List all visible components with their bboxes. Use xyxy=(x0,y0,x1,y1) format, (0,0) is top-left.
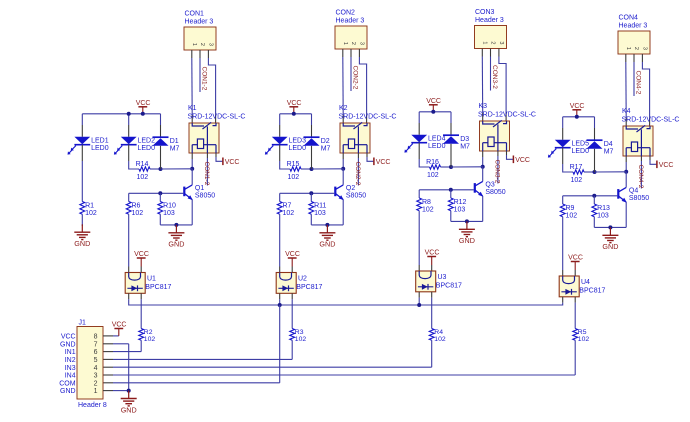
wire rail to diode D3 xyxy=(450,112,452,135)
svg-text:R7: R7 xyxy=(283,202,292,209)
wire LED LED4 to resistor R16 xyxy=(419,143,429,167)
svg-text:R11: R11 xyxy=(314,202,326,209)
svg-text:CON1: CON1 xyxy=(185,11,205,18)
svg-text:CON2: CON2 xyxy=(336,10,356,17)
wire CON3 pin1 to relay NC contact xyxy=(481,49,483,122)
svg-text:VCC: VCC xyxy=(112,322,127,329)
wire relay K1 coil- to collector node xyxy=(191,153,193,169)
svg-text:IN1: IN1 xyxy=(65,349,76,356)
svg-text:GND: GND xyxy=(319,240,335,249)
resistor R13 103 xyxy=(592,196,610,220)
svg-text:K1: K1 xyxy=(188,105,197,112)
svg-text:3: 3 xyxy=(358,42,364,45)
svg-text:COM: COM xyxy=(59,380,76,387)
connector J1 (Header 8) xyxy=(77,320,107,409)
svg-text:R1: R1 xyxy=(85,202,94,209)
svg-text:LED2: LED2 xyxy=(138,138,156,145)
svg-text:Header 3: Header 3 xyxy=(336,18,365,25)
resistor R5 102 xyxy=(573,329,590,344)
transistor Q3 S8050 xyxy=(475,181,506,196)
wire LED LED3 to resistor R15 xyxy=(280,145,290,169)
node VCC stem junction xyxy=(141,112,145,116)
svg-text:VCC: VCC xyxy=(225,159,240,166)
wire coil node to Q3 collector xyxy=(482,167,484,182)
LED LED2 xyxy=(114,137,155,155)
svg-text:102: 102 xyxy=(566,212,578,219)
svg-text:GND: GND xyxy=(459,236,475,245)
svg-text:R2: R2 xyxy=(144,329,153,336)
wire R4 to J1 row xyxy=(103,340,432,367)
svg-text:LED3: LED3 xyxy=(289,138,307,145)
svg-text:R3: R3 xyxy=(295,329,304,336)
relay K1 SRD-12VDC-SL-C xyxy=(188,105,246,153)
wire U3 cathode pin to bus xyxy=(418,292,420,305)
wire relay K2 coil+ to VCC xyxy=(367,153,373,161)
node VCC stem junction xyxy=(431,110,435,114)
resistor R9 102 xyxy=(560,196,577,220)
LED LED3 xyxy=(265,137,306,155)
node base junction xyxy=(158,191,162,195)
power VCC at relay K4 coil xyxy=(657,161,674,169)
wire diode node to coil node xyxy=(161,168,193,170)
resistor R4 102 xyxy=(429,329,446,344)
wire rail to diode D1 xyxy=(160,114,162,137)
wire Q4 base xyxy=(563,195,618,197)
wire VCC rail of channel 1 xyxy=(129,113,161,115)
diode D2 M7 xyxy=(304,137,331,152)
svg-text:IN3: IN3 xyxy=(65,365,76,372)
svg-text:CON4-2: CON4-2 xyxy=(635,71,642,95)
svg-text:GND: GND xyxy=(168,240,184,249)
wire R3 to J1 row xyxy=(103,340,292,359)
svg-text:VCC: VCC xyxy=(426,98,441,105)
wire Q1 base xyxy=(129,192,184,194)
svg-text:1: 1 xyxy=(191,43,197,46)
node emitter/ground junction xyxy=(465,219,469,223)
svg-text:M7: M7 xyxy=(460,144,470,151)
svg-text:102: 102 xyxy=(288,174,300,181)
svg-text:CON2-2: CON2-2 xyxy=(354,162,361,186)
svg-text:1: 1 xyxy=(342,42,348,45)
wire relay K4 coil- to collector node xyxy=(625,156,627,172)
wire J1 pin8 to VCC xyxy=(103,335,119,337)
wire CON3 pin3 to relay NO contact xyxy=(499,49,506,122)
svg-text:103: 103 xyxy=(163,210,175,217)
wire LED LED5 to resistor R17 xyxy=(563,148,573,172)
svg-text:U1: U1 xyxy=(147,275,156,282)
svg-text:BPC817: BPC817 xyxy=(296,284,322,291)
resistor R17 102 xyxy=(570,164,584,184)
svg-text:103: 103 xyxy=(597,212,609,219)
svg-text:LED0: LED0 xyxy=(91,145,109,152)
node emitter/ground junction xyxy=(608,225,612,229)
LED LED4 xyxy=(404,135,445,153)
wire rail to LED LED2 xyxy=(128,114,130,137)
svg-text:LED5: LED5 xyxy=(572,141,590,148)
transistor Q1 S8050 xyxy=(184,185,215,200)
svg-text:IN2: IN2 xyxy=(65,357,76,364)
node U2 cathode junction xyxy=(278,303,282,307)
svg-text:2: 2 xyxy=(633,47,639,50)
wire R6 to optocoupler U1 emitter pin xyxy=(128,214,130,272)
svg-text:M7: M7 xyxy=(170,146,180,153)
connector CON1 (Header 3) xyxy=(184,11,216,51)
svg-text:GND: GND xyxy=(602,242,618,251)
node coil-/collector junction xyxy=(190,167,194,171)
svg-text:K2: K2 xyxy=(339,105,348,112)
svg-text:LED0: LED0 xyxy=(428,143,446,150)
svg-text:S8050: S8050 xyxy=(346,193,366,200)
wire CON1 pin3 to relay NO contact xyxy=(208,50,215,123)
wire Q2 base xyxy=(280,192,335,194)
svg-text:K4: K4 xyxy=(622,108,631,115)
resistor R3 102 xyxy=(290,329,307,344)
svg-text:SRD-12VDC-SL-C: SRD-12VDC-SL-C xyxy=(478,112,536,119)
node emitter/ground junction xyxy=(325,223,329,227)
svg-text:3: 3 xyxy=(498,41,504,44)
wire Q2 emitter down xyxy=(342,200,344,225)
diode D1 M7 xyxy=(153,137,180,152)
resistor R7 102 xyxy=(277,193,294,217)
svg-text:R4: R4 xyxy=(434,329,443,336)
wire relay K4 coil+ to VCC xyxy=(650,156,656,164)
svg-text:8: 8 xyxy=(94,334,98,341)
wire R13 bottom to emitter xyxy=(594,217,626,228)
resistor R8 102 xyxy=(417,190,434,214)
wire LED1 to R1 xyxy=(81,145,83,202)
svg-text:D4: D4 xyxy=(604,141,613,148)
ground at Q2 emitter xyxy=(319,225,335,249)
svg-text:2: 2 xyxy=(490,41,496,44)
wire R16 to diode node xyxy=(441,166,452,168)
svg-text:5: 5 xyxy=(94,357,98,364)
optocoupler U2 BPC817 xyxy=(276,273,322,294)
svg-text:J1: J1 xyxy=(79,320,87,327)
wire relay K3 COM pin (net CON3-2) xyxy=(497,151,499,184)
power VCC at relay K3 coil xyxy=(513,156,530,164)
svg-text:Header 3: Header 3 xyxy=(619,23,648,30)
svg-text:D1: D1 xyxy=(170,138,179,145)
wire relay K4 COM pin (net CON4-2) xyxy=(640,156,642,189)
svg-text:SRD-12VDC-SL-C: SRD-12VDC-SL-C xyxy=(339,114,397,121)
wire diode node to coil node xyxy=(451,166,483,168)
resistor R16 102 xyxy=(426,159,440,179)
node J1 ground junction xyxy=(127,389,131,393)
svg-text:GND: GND xyxy=(60,388,76,395)
wire CON1 pin1 to relay NC contact xyxy=(191,50,193,123)
svg-text:102: 102 xyxy=(137,174,149,181)
node coil-/collector junction xyxy=(481,165,485,169)
diode D4 M7 xyxy=(587,140,614,155)
power VCC on rail 3 xyxy=(426,98,441,112)
power VCC at optocoupler U1 xyxy=(134,251,149,272)
svg-text:U2: U2 xyxy=(298,275,307,282)
node LED2 rail junction xyxy=(127,112,131,116)
svg-text:IN4: IN4 xyxy=(65,373,76,380)
transistor Q2 S8050 xyxy=(335,185,366,200)
svg-text:SRD-12VDC-SL-C: SRD-12VDC-SL-C xyxy=(622,117,680,124)
node VCC stem junction xyxy=(575,115,579,119)
svg-text:R5: R5 xyxy=(578,329,587,336)
wire J1 pin7 GND riser xyxy=(103,344,129,391)
wire diode node to coil node xyxy=(595,171,627,173)
node coil-/collector junction xyxy=(624,170,628,174)
wire relay K3 coil+ to VCC xyxy=(507,151,513,159)
svg-text:R15: R15 xyxy=(287,161,300,168)
resistor R1 102 xyxy=(80,202,97,217)
wire rail left end to LED1 xyxy=(82,114,128,137)
svg-text:102: 102 xyxy=(427,172,439,179)
wire R15 to diode node xyxy=(301,168,312,170)
svg-text:2: 2 xyxy=(94,380,98,387)
svg-text:LED0: LED0 xyxy=(289,145,307,152)
wire CON4 pin2 stub (net CON4-2) xyxy=(633,54,635,96)
svg-text:CON4: CON4 xyxy=(619,15,639,22)
power VCC at optocoupler U2 xyxy=(285,251,300,272)
wire VCC rail of channel 4 xyxy=(563,116,595,118)
svg-text:M7: M7 xyxy=(321,146,331,153)
svg-text:VCC: VCC xyxy=(61,334,76,341)
wire diode D4 anode to node xyxy=(594,149,596,172)
resistor R2 102 xyxy=(139,329,156,344)
wire relay K1 coil+ to VCC xyxy=(216,153,222,161)
svg-text:D2: D2 xyxy=(321,138,330,145)
svg-text:VCC: VCC xyxy=(287,100,302,107)
transistor Q4 S8050 xyxy=(618,187,649,202)
power VCC at optocoupler U4 xyxy=(568,255,583,276)
svg-text:7: 7 xyxy=(94,341,98,348)
relay K4 SRD-12VDC-SL-C xyxy=(622,108,680,156)
svg-text:1: 1 xyxy=(94,388,98,395)
ground at J1 xyxy=(121,391,137,415)
wire relay K2 coil- to collector node xyxy=(342,153,344,169)
svg-text:M7: M7 xyxy=(604,149,614,156)
svg-text:1: 1 xyxy=(481,41,487,44)
ground at Q3 emitter xyxy=(459,221,475,245)
wire Q3 base xyxy=(419,189,474,191)
svg-text:CON1-2: CON1-2 xyxy=(203,162,210,186)
svg-text:102: 102 xyxy=(434,336,446,343)
node diode anode junction xyxy=(159,167,163,171)
wire CON2 pin2 stub (net CON2-2) xyxy=(350,49,352,91)
svg-text:102: 102 xyxy=(578,336,590,343)
svg-text:S8050: S8050 xyxy=(195,193,215,200)
svg-text:VCC: VCC xyxy=(568,255,583,262)
svg-text:6: 6 xyxy=(94,349,98,356)
svg-text:CON1-2: CON1-2 xyxy=(201,67,208,91)
wire R1 to ground xyxy=(81,214,83,226)
node emitter/ground junction xyxy=(174,223,178,227)
svg-text:S8050: S8050 xyxy=(485,189,505,196)
svg-text:U3: U3 xyxy=(438,274,447,281)
svg-text:2: 2 xyxy=(350,42,356,45)
resistor R14 102 xyxy=(136,161,150,181)
svg-text:Q1: Q1 xyxy=(195,185,204,192)
node base junction xyxy=(309,191,313,195)
svg-text:102: 102 xyxy=(283,210,295,217)
svg-text:K3: K3 xyxy=(479,103,488,110)
wire rail to diode D4 xyxy=(594,117,596,140)
svg-text:LED0: LED0 xyxy=(138,145,156,152)
svg-text:BPC817: BPC817 xyxy=(436,283,462,290)
svg-text:Q3: Q3 xyxy=(485,182,494,189)
wire coil node to Q1 collector xyxy=(191,169,193,185)
wire rail to diode D2 xyxy=(311,114,313,137)
wire VCC rail of channel 2 xyxy=(280,113,312,115)
svg-text:102: 102 xyxy=(85,210,97,217)
svg-text:SRD-12VDC-SL-C: SRD-12VDC-SL-C xyxy=(188,114,246,121)
wire diode D2 anode to node xyxy=(311,146,313,169)
optocoupler U4 BPC817 xyxy=(559,276,605,297)
node diode anode junction xyxy=(310,167,314,171)
svg-text:2: 2 xyxy=(199,43,205,46)
svg-text:R10: R10 xyxy=(163,202,176,209)
wire CON4 pin1 to relay NC contact xyxy=(625,54,627,126)
wire CON4 pin3 to relay NO contact xyxy=(642,54,649,126)
svg-text:VCC: VCC xyxy=(659,162,674,169)
wire rail to LED LED3 xyxy=(279,114,281,137)
wire optocoupler anode pin down to R2 xyxy=(140,293,142,328)
svg-text:R9: R9 xyxy=(566,205,575,212)
svg-text:LED1: LED1 xyxy=(91,138,109,145)
ground below R1 xyxy=(74,224,90,248)
wire relay K2 COM pin (net CON2-2) xyxy=(357,153,359,186)
wire Q4 emitter down xyxy=(625,202,627,227)
wire COM from J1 to LED bus xyxy=(103,305,280,383)
svg-text:CON4-2: CON4-2 xyxy=(637,165,644,189)
ground at Q4 emitter xyxy=(602,227,618,251)
svg-text:3: 3 xyxy=(207,43,213,46)
svg-text:BPC817: BPC817 xyxy=(145,284,171,291)
node VCC stem junction xyxy=(292,112,296,116)
svg-text:VCC: VCC xyxy=(285,251,300,258)
wire diode node to coil node xyxy=(312,168,344,170)
svg-text:S8050: S8050 xyxy=(629,195,649,202)
svg-text:R6: R6 xyxy=(132,202,141,209)
svg-text:R17: R17 xyxy=(570,164,583,171)
wire LED LED2 to resistor R14 xyxy=(129,145,139,169)
svg-text:102: 102 xyxy=(295,336,307,343)
LED LED1 xyxy=(68,137,109,155)
wire diode D1 anode to node xyxy=(160,146,162,169)
svg-text:R12: R12 xyxy=(454,199,467,206)
svg-text:3: 3 xyxy=(94,373,98,380)
wire CON1 pin2 stub (net CON1-2) xyxy=(199,50,201,92)
svg-text:GND: GND xyxy=(60,341,76,348)
svg-text:3: 3 xyxy=(641,47,647,50)
resistor R10 103 xyxy=(158,193,176,217)
node U3 cathode junction xyxy=(417,303,421,307)
optocoupler U3 BPC817 xyxy=(416,271,462,292)
svg-text:VCC: VCC xyxy=(425,250,440,257)
svg-text:R13: R13 xyxy=(597,205,610,212)
wire J1 pin1 to ground xyxy=(103,390,129,392)
wire rail to LED LED5 xyxy=(562,117,564,140)
wire R10 bottom to emitter xyxy=(160,214,192,225)
svg-text:102: 102 xyxy=(144,336,156,343)
svg-text:Header 8: Header 8 xyxy=(78,402,107,409)
svg-text:GND: GND xyxy=(74,239,90,248)
wire U2 cathode pin to bus xyxy=(279,293,281,305)
ground at Q1 emitter xyxy=(168,225,184,249)
svg-text:Header 3: Header 3 xyxy=(185,19,214,26)
power VCC on rail 2 xyxy=(287,100,302,114)
svg-text:VCC: VCC xyxy=(376,159,391,166)
relay K2 SRD-12VDC-SL-C xyxy=(339,105,397,153)
svg-text:4: 4 xyxy=(94,365,98,372)
wire R12 bottom to emitter xyxy=(451,211,483,222)
svg-text:103: 103 xyxy=(454,206,466,213)
wire Q1 emitter down xyxy=(191,200,193,225)
svg-text:BPC817: BPC817 xyxy=(579,288,605,295)
wire CON2 pin1 to relay NC contact xyxy=(342,49,344,123)
wire coil node to Q2 collector xyxy=(342,169,344,185)
svg-text:VCC: VCC xyxy=(515,157,530,164)
resistor R12 103 xyxy=(448,190,466,214)
wire R7 to optocoupler U2 emitter pin xyxy=(279,214,281,272)
optocoupler U1 BPC817 xyxy=(125,273,171,294)
svg-text:Q4: Q4 xyxy=(629,188,638,195)
power VCC at optocoupler U3 xyxy=(425,250,440,271)
svg-text:LED4: LED4 xyxy=(428,136,446,143)
diode D3 M7 xyxy=(443,135,470,150)
node base junction xyxy=(592,194,596,198)
connector CON4 (Header 3) xyxy=(618,15,650,55)
relay K3 SRD-12VDC-SL-C xyxy=(478,103,536,151)
wire R9 to optocoupler U4 emitter pin xyxy=(562,217,564,276)
svg-text:LED0: LED0 xyxy=(572,148,590,155)
wire relay K1 COM pin (net CON1-2) xyxy=(206,153,208,186)
svg-text:Q2: Q2 xyxy=(346,185,355,192)
connector CON3 (Header 3) xyxy=(475,9,507,49)
connector CON2 (Header 3) xyxy=(335,10,367,50)
svg-text:103: 103 xyxy=(314,210,326,217)
svg-text:102: 102 xyxy=(132,210,144,217)
wire VCC rail of channel 3 xyxy=(419,111,451,113)
node base junction xyxy=(449,188,453,192)
svg-text:CON2-2: CON2-2 xyxy=(352,66,359,90)
node diode anode junction xyxy=(593,170,597,174)
svg-text:102: 102 xyxy=(571,177,583,184)
resistor R15 102 xyxy=(287,161,301,181)
svg-text:R14: R14 xyxy=(136,161,149,168)
svg-text:102: 102 xyxy=(422,206,434,213)
svg-text:Header 3: Header 3 xyxy=(475,17,504,24)
resistor R11 103 xyxy=(309,193,327,217)
wire coil node to Q4 collector xyxy=(625,172,627,188)
wire optocoupler anode pin down to R5 xyxy=(574,297,576,329)
wire CON3 pin2 stub (net CON3-2) xyxy=(490,49,492,91)
svg-text:VCC: VCC xyxy=(136,100,151,107)
power VCC on rail 4 xyxy=(570,103,585,117)
svg-text:CON3-2: CON3-2 xyxy=(494,160,501,184)
svg-text:CON3-2: CON3-2 xyxy=(491,65,498,89)
wire CON2 pin3 to relay NO contact xyxy=(359,49,366,123)
node diode anode junction xyxy=(449,165,453,169)
wire R11 bottom to emitter xyxy=(311,214,343,225)
power VCC on rail 1 xyxy=(136,100,151,114)
wire R5 to J1 row xyxy=(103,340,575,375)
node coil-/collector junction xyxy=(341,167,345,171)
wire optocoupler anode pin down to R3 xyxy=(291,293,293,328)
wire diode D3 anode to node xyxy=(450,144,452,167)
wire R2 to J1 row xyxy=(103,340,141,351)
wire R17 to diode node xyxy=(584,171,595,173)
svg-text:CON3: CON3 xyxy=(475,9,495,16)
resistor R6 102 xyxy=(126,193,143,217)
wire Q3 emitter down xyxy=(482,196,484,221)
svg-text:VCC: VCC xyxy=(570,103,585,110)
